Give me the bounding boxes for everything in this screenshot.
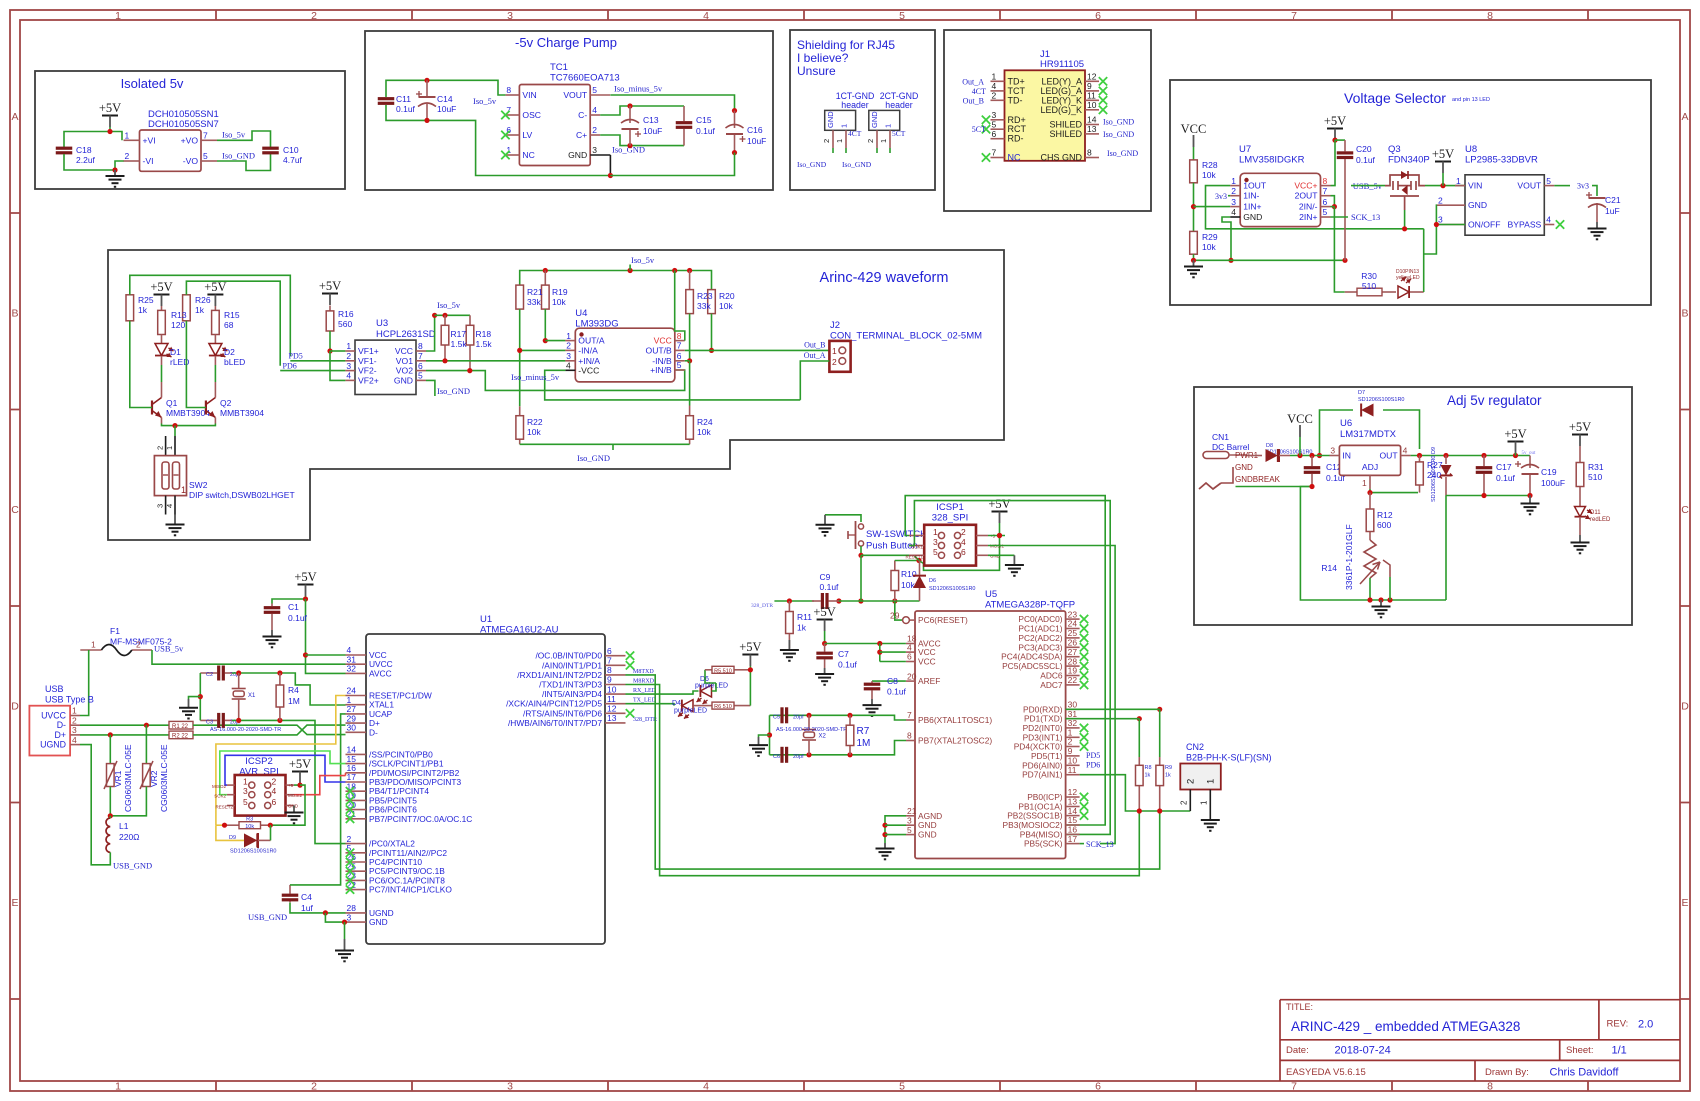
ground (SW2) — [174, 515, 176, 525]
wire +5V to U7 VCC+ pin8 — [1331, 140, 1336, 186]
capacitor C20 — [1335, 139, 1345, 141]
svg-text:4: 4 — [961, 537, 966, 547]
ground (C7) — [824, 668, 826, 674]
U5 pin 23 PC0(ADC0) — [1066, 618, 1080, 620]
no-connect X on OSC LV NC pins — [501, 111, 509, 119]
svg-text:D2: D2 — [224, 347, 235, 357]
svg-text:VCC: VCC — [1181, 122, 1207, 136]
svg-text:+5V: +5V — [813, 605, 835, 619]
svg-text:VO1: VO1 — [396, 356, 413, 366]
U1 pin 24 RESET/PC1/DW — [346, 695, 367, 697]
svg-text:R1 22: R1 22 — [172, 724, 189, 730]
svg-text:R25: R25 — [138, 295, 154, 305]
J1 pin 13 SHILED — [1085, 133, 1099, 135]
resistor R11 1k — [788, 601, 790, 612]
svg-text:C11: C11 — [396, 94, 411, 104]
svg-text:1k: 1k — [797, 623, 807, 633]
svg-text:-5v Charge Pump: -5v Charge Pump — [515, 35, 617, 50]
svg-text:2: 2 — [125, 151, 130, 161]
U5 pin 30 PD0(RXD) — [1066, 708, 1080, 710]
svg-text:8: 8 — [907, 731, 912, 741]
J1 pin 9 LED(G)_A — [1085, 90, 1099, 92]
svg-text:RESET2: RESET2 — [215, 805, 233, 810]
svg-text:VR2: VR2 — [149, 770, 159, 787]
svg-text:A: A — [1681, 111, 1688, 123]
wire ICSP1 pin4 MOSI1 to U5 PB3 via vertical — [988, 546, 1115, 844]
wire C12 bottom rail to bottom gnd rail — [1300, 487, 1368, 601]
svg-text:3v3: 3v3 — [1577, 182, 1589, 191]
svg-text:PB0(ICP): PB0(ICP) — [1027, 792, 1063, 802]
capacitor C7 0.1uf — [824, 644, 826, 652]
svg-text:ADC7: ADC7 — [1040, 680, 1063, 690]
svg-text:bLED: bLED — [224, 357, 245, 367]
svg-text:R4: R4 — [288, 685, 299, 695]
svg-text:SW-1SWITCH: SW-1SWITCH — [866, 529, 927, 540]
U1 pin 22 PC7/INT4/ICP1/CLKO — [346, 889, 367, 891]
wire D2 to Q2 collector — [214, 356, 216, 365]
wire DTR node down to U5 RESET pin29 — [895, 601, 903, 620]
svg-text:1: 1 — [346, 341, 351, 351]
svg-text:3: 3 — [1438, 215, 1443, 225]
wire U4 VCC pin8 elbow to Iso_5v bus — [675, 271, 685, 341]
svg-text:2: 2 — [1438, 195, 1443, 205]
svg-text:1: 1 — [884, 124, 893, 128]
svg-text:I believe?: I believe? — [797, 51, 849, 65]
svg-text:13: 13 — [607, 713, 617, 723]
svg-text:header: header — [885, 100, 912, 110]
wire D10 cathode up to 1OUT line — [1410, 291, 1424, 293]
ICSP2 pins row 1 — [227, 784, 235, 786]
svg-text:B: B — [1681, 308, 1688, 320]
svg-text:4: 4 — [1546, 215, 1551, 225]
svg-text:2: 2 — [72, 715, 77, 725]
varistor VR2 CG0603MLC-05E — [145, 725, 147, 763]
svg-text:+5V: +5V — [204, 280, 226, 294]
svg-text:/HWB/AIN6/T0/INT7/PD7: /HWB/AIN6/T0/INT7/PD7 — [508, 718, 602, 728]
ICSP2 pin6 ground — [293, 806, 295, 809]
svg-text:C5: C5 — [773, 714, 780, 720]
svg-text:C3: C3 — [206, 719, 213, 725]
svg-text:22: 22 — [1068, 675, 1078, 685]
U1 pin 10 /INT5/AIN3/PD4 — [605, 693, 626, 695]
svg-text:Q3: Q3 — [1388, 144, 1401, 155]
svg-text:Iso_GND: Iso_GND — [1107, 149, 1138, 158]
svg-text:220Ω: 220Ω — [119, 832, 140, 842]
svg-text:TX_LED: TX_LED — [633, 698, 656, 704]
svg-text:C-: C- — [578, 110, 587, 120]
U1 pin 27 UCAP — [346, 713, 367, 715]
svg-text:D4: D4 — [672, 700, 681, 707]
svg-text:2: 2 — [566, 341, 571, 351]
svg-text:32: 32 — [347, 664, 357, 674]
svg-text:1: 1 — [840, 124, 849, 128]
svg-text:1IN-: 1IN- — [1243, 191, 1259, 201]
U1 pin 31 UVCC — [346, 663, 367, 665]
svg-text:Unsure: Unsure — [797, 64, 836, 78]
svg-text:4: 4 — [1231, 207, 1236, 217]
U5 pin 1 PD3(INT1) — [1066, 736, 1080, 738]
svg-text:1IN+: 1IN+ — [1243, 202, 1261, 212]
svg-text:+5V: +5V — [988, 497, 1010, 511]
svg-text:0.1uf: 0.1uf — [838, 660, 858, 670]
ground (C19) — [1529, 496, 1531, 504]
svg-text:3: 3 — [507, 10, 513, 22]
J1 pin 14 SHILED — [1085, 124, 1099, 126]
emitter junction wire to SW2 — [162, 424, 216, 426]
svg-text:7: 7 — [1291, 1081, 1297, 1093]
svg-text:2: 2 — [272, 777, 277, 787]
X2 left rail and ground — [769, 715, 771, 755]
wire R26 bottom to Q2 base — [186, 321, 206, 408]
capacitor C1 — [271, 604, 273, 607]
svg-text:R18: R18 — [476, 329, 492, 339]
resistor R20 10k — [708, 290, 716, 314]
svg-text:6: 6 — [907, 652, 912, 662]
svg-text:2.2uf: 2.2uf — [76, 155, 96, 165]
svg-text:GNDBREAK: GNDBREAK — [1235, 475, 1281, 484]
svg-text:5v_out: 5v_out — [1522, 451, 1537, 456]
J1 pin 6 RD- — [991, 138, 1005, 140]
svg-text:C4: C4 — [301, 892, 312, 902]
svg-text:8: 8 — [677, 331, 682, 341]
U1 pin 11 /XCK/AIN4/PCINT12/PD5 — [605, 703, 626, 705]
svg-text:3: 3 — [933, 537, 938, 547]
svg-text:2: 2 — [992, 91, 997, 101]
svg-text:/XCK/AIN4/PCINT12/PD5: /XCK/AIN4/PCINT12/PD5 — [506, 699, 602, 709]
wire VO2 jog to U4 +IN/B — [426, 370, 685, 390]
capacitor C4 1uf — [289, 885, 291, 894]
svg-text:R12: R12 — [1377, 510, 1393, 520]
ground (X1) — [188, 699, 190, 708]
svg-text:TITLE:: TITLE: — [1286, 1002, 1313, 1012]
svg-text:R22: R22 — [527, 417, 543, 427]
svg-text:PB6(XTAL1TOSC1): PB6(XTAL1TOSC1) — [918, 715, 992, 725]
svg-text:1: 1 — [115, 1081, 121, 1093]
section box J1 — [944, 30, 1151, 211]
USB pin 2 D- — [70, 724, 80, 726]
svg-text:5: 5 — [243, 797, 248, 807]
svg-text:5: 5 — [1546, 176, 1551, 186]
wire D6 anode to R5 — [712, 683, 716, 691]
svg-text:5: 5 — [899, 1081, 905, 1093]
svg-text:R21: R21 — [527, 287, 543, 297]
U1 pin 28 UGND — [346, 912, 367, 914]
svg-text:3: 3 — [347, 912, 352, 922]
wire R25 top to PD5 elbow — [130, 275, 290, 356]
svg-text:4CT: 4CT — [848, 129, 862, 138]
svg-text:Iso_5v: Iso_5v — [437, 300, 461, 310]
U5 pin 15 PB3(MOSIOC2) — [1066, 824, 1080, 826]
U1 pin 20 PB6/PCINT6 — [346, 809, 367, 811]
svg-text:VCC: VCC — [918, 657, 936, 667]
svg-text:+5V: +5V — [319, 279, 341, 293]
svg-text:A: A — [11, 111, 18, 123]
svg-text:2: 2 — [1231, 186, 1236, 196]
svg-text:C17: C17 — [1496, 462, 1512, 472]
svg-text:3: 3 — [346, 361, 351, 371]
svg-text:4: 4 — [592, 105, 597, 115]
svg-text:PC7/INT4/ICP1/CLKO: PC7/INT4/ICP1/CLKO — [369, 885, 452, 895]
U5 pin 10 PD6(AIN0) — [1066, 764, 1080, 766]
section box -5v Charge Pump — [365, 31, 773, 190]
svg-text:7: 7 — [203, 131, 208, 141]
svg-text:7: 7 — [677, 341, 682, 351]
svg-text:Shielding for RJ45: Shielding for RJ45 — [797, 38, 895, 52]
svg-text:7: 7 — [1291, 10, 1297, 22]
svg-text:C8: C8 — [887, 676, 898, 686]
diode D9 (ICSP2 reset) — [244, 833, 257, 847]
U5 pin 9 PD5(T1) — [1066, 755, 1080, 757]
svg-text:2: 2 — [961, 527, 966, 537]
svg-text:X2: X2 — [819, 734, 827, 740]
svg-text:1: 1 — [1362, 478, 1367, 488]
svg-text:D6: D6 — [929, 578, 936, 584]
wire U7 pin4 GND to rail — [1222, 217, 1231, 260]
polarized capacitor C21 — [1596, 203, 1598, 222]
svg-text:PD7(AIN1): PD7(AIN1) — [1022, 770, 1063, 780]
U1 pin 2 /PC0/XTAL2 — [346, 843, 367, 845]
U5 pin 3 GND — [906, 824, 915, 826]
svg-text:R20: R20 — [719, 291, 735, 301]
svg-text:1: 1 — [933, 527, 938, 537]
resistor R2 22 — [169, 731, 193, 739]
wire +5V node to U1 VCC pin4 — [306, 654, 346, 656]
crystal X1 AS-16.000-20-2020-SMD-TR — [232, 673, 346, 705]
LED D1 rLED — [161, 335, 163, 344]
svg-text:SCK_13: SCK_13 — [1086, 840, 1114, 849]
svg-text:0.1uf: 0.1uf — [696, 126, 716, 136]
svg-text:1: 1 — [91, 640, 96, 650]
U1 pin 14 /SS/PCINT0/PB0 — [346, 753, 367, 755]
svg-text:7: 7 — [418, 351, 423, 361]
svg-text:1: 1 — [835, 139, 844, 143]
svg-text:VF1-: VF1- — [358, 356, 377, 366]
resistor R1 22 — [169, 721, 193, 729]
svg-text:R31: R31 — [1588, 462, 1604, 472]
U4 pin 4 -VCC — [565, 369, 575, 371]
svg-text:5CT: 5CT — [892, 129, 906, 138]
svg-text:Iso_GND: Iso_GND — [577, 453, 610, 463]
svg-text:R29: R29 — [1202, 232, 1218, 242]
wire pushbutton to RESET net — [860, 546, 862, 555]
svg-text:Voltage Selector: Voltage Selector — [1344, 90, 1446, 106]
wire U7 2OUT to 2IN- junction — [1331, 196, 1335, 207]
svg-text:6: 6 — [607, 646, 612, 656]
U5 pin 16 PB4(MISO) — [1066, 833, 1080, 835]
svg-text:TD+: TD+ — [1008, 76, 1025, 86]
wire top rail C11 C14 to VIN — [386, 80, 505, 97]
U1 no-connect X marks left side — [346, 787, 354, 795]
Iso_5v stub rail for R17 R18 — [435, 314, 470, 316]
crystal cluster X1: cap C2 20pf — [200, 672, 217, 674]
svg-text:10k: 10k — [697, 427, 711, 437]
svg-text:LP2985-33DBVR: LP2985-33DBVR — [1465, 155, 1538, 166]
svg-text:Sheet:: Sheet: — [1566, 1045, 1593, 1056]
net label 3v3 (U7 1IN-) — [1228, 195, 1230, 197]
wire C9 to R10/D6 and pin29 — [839, 600, 920, 602]
bottom ground rail (adj section) — [1369, 599, 1447, 601]
svg-text:Iso_5v: Iso_5v — [631, 255, 655, 265]
svg-text:D9: D9 — [229, 835, 236, 841]
section box Adj 5v regulator — [1194, 387, 1632, 625]
resistor R29 10k — [1190, 231, 1198, 254]
svg-text:+5V: +5V — [1324, 114, 1346, 128]
wire ICSP1 pin2 to +5 — [988, 535, 1005, 537]
svg-text:LV: LV — [522, 130, 532, 140]
svg-text:R9: R9 — [1165, 765, 1172, 771]
U1 pin 13 /HWB/AIN6/T0/INT7/PD7 — [605, 722, 626, 724]
svg-text:RD-: RD- — [1008, 134, 1024, 144]
U1 pin 6 /OC.0B/INT0/PD0 — [605, 655, 626, 657]
section box Shielding for RJ45 — [790, 30, 935, 190]
svg-text:SD1206S100S1R0: SD1206S100S1R0 — [230, 849, 276, 855]
svg-text:8: 8 — [1323, 176, 1328, 186]
svg-text:12: 12 — [1087, 72, 1097, 82]
wire TX_LED from U1 pin11 to LED D4 — [626, 704, 675, 706]
svg-text:4: 4 — [566, 361, 571, 371]
ICSP1 pins row 1 — [909, 535, 924, 537]
svg-text:4: 4 — [1403, 446, 1408, 456]
svg-text:D7: D7 — [1358, 390, 1365, 396]
svg-text:2: 2 — [1180, 800, 1189, 805]
J1 pin 12 LED(Y)_A — [1085, 80, 1099, 82]
svg-text:3: 3 — [72, 725, 77, 735]
svg-text:8: 8 — [1087, 148, 1092, 158]
svg-text:+VO: +VO — [181, 135, 199, 145]
svg-text:Iso_5v: Iso_5v — [473, 96, 497, 106]
resistor R31 510 — [1579, 446, 1581, 463]
net label 3v3 (U8 VOUT) — [1554, 185, 1570, 187]
svg-text:7: 7 — [607, 656, 612, 666]
svg-text:RESET1: RESET1 — [905, 555, 923, 560]
svg-text:1uF: 1uF — [1605, 206, 1620, 216]
svg-text:10k: 10k — [901, 580, 915, 590]
capacitor C18 — [56, 147, 73, 150]
resistor R17 1.5k — [444, 315, 446, 325]
svg-text:6: 6 — [1095, 10, 1101, 22]
svg-text:CON_TERMINAL_BLOCK_02-5MM: CON_TERMINAL_BLOCK_02-5MM — [830, 331, 982, 342]
svg-text:1: 1 — [72, 706, 77, 716]
svg-text:510: 510 — [1362, 281, 1376, 291]
svg-text:Iso_GND: Iso_GND — [797, 160, 827, 169]
svg-text:VO2: VO2 — [396, 366, 413, 376]
resistor R21 33k — [516, 285, 524, 309]
svg-text:HR911105: HR911105 — [1040, 59, 1084, 70]
svg-text:PB7(XTAL2TOSC2): PB7(XTAL2TOSC2) — [918, 736, 992, 746]
wire +5 wrap to reset node — [919, 536, 1000, 571]
svg-text:+5V: +5V — [739, 640, 761, 654]
svg-text:1: 1 — [115, 10, 121, 22]
svg-text:Q2: Q2 — [220, 398, 232, 408]
svg-text:1/1: 1/1 — [1612, 1045, 1627, 1057]
svg-text:4: 4 — [703, 1081, 709, 1093]
svg-text:7: 7 — [992, 148, 997, 158]
J1 pin 10 LED(G)_K — [1085, 109, 1099, 111]
svg-text:R15: R15 — [224, 310, 240, 320]
svg-text:GND: GND — [1468, 200, 1487, 210]
U5 pin 21 AGND — [906, 815, 915, 817]
svg-text:TC7660EOA713: TC7660EOA713 — [550, 73, 620, 84]
svg-text:0.1uf: 0.1uf — [1496, 473, 1516, 483]
varistor VR1 CG0603MLC-05E — [109, 735, 111, 764]
U5 pin 2 PD4(XCKT0) — [1066, 746, 1080, 748]
svg-text:120: 120 — [171, 320, 185, 330]
svg-text:R16: R16 — [338, 309, 354, 319]
svg-text:100uF: 100uF — [1541, 478, 1565, 488]
svg-text:C21: C21 — [1605, 195, 1621, 205]
svg-text:3: 3 — [566, 351, 571, 361]
wire OUT to 5v rail — [1411, 455, 1530, 457]
svg-text:MMBT3904: MMBT3904 — [220, 408, 264, 418]
svg-text:C16: C16 — [747, 125, 763, 135]
ground (adj section) — [1380, 600, 1382, 606]
wire D9 bottom to lower rail and down to gnd rail — [1445, 496, 1447, 601]
svg-text:29: 29 — [890, 610, 900, 620]
SW2 bottom pins — [165, 496, 167, 515]
wire yellow RESET2 to U1 RESET — [216, 696, 346, 806]
resistor R6 510 — [704, 705, 712, 707]
ground (D11) — [1579, 535, 1581, 542]
svg-text:9: 9 — [607, 675, 612, 685]
J1 pin 4 TCT — [991, 90, 1005, 92]
wire Q3 to +5V node to U8 VIN — [1425, 185, 1465, 187]
svg-text:U8: U8 — [1465, 144, 1477, 155]
wire R19 to U4 OUT/A — [544, 309, 546, 341]
svg-text:C7: C7 — [838, 649, 849, 659]
svg-text:PD6: PD6 — [283, 362, 297, 371]
svg-text:3361P-1-201GLF: 3361P-1-201GLF — [1344, 524, 1354, 590]
svg-text:20pf: 20pf — [793, 714, 804, 720]
wire blue MISO2 to U1 PB3 — [225, 755, 346, 785]
wire UCAP to C4 — [290, 714, 346, 885]
svg-text:/INT5/AIN3/PD4: /INT5/AIN3/PD4 — [542, 689, 602, 699]
svg-text:C19: C19 — [1541, 467, 1557, 477]
wire R14 wiper to rail — [1389, 577, 1391, 600]
svg-text:ON/OFF: ON/OFF — [1468, 220, 1500, 230]
Q3 gate wire down — [1404, 210, 1406, 229]
wire D4 anode to R6 — [693, 705, 704, 707]
svg-text:6: 6 — [272, 797, 277, 807]
svg-text:C10: C10 — [283, 145, 299, 155]
C14 bottom lead — [426, 104, 428, 120]
svg-text:Date:: Date: — [1286, 1045, 1309, 1056]
svg-text:4: 4 — [272, 786, 277, 796]
svg-text:GND: GND — [918, 830, 937, 840]
svg-text:2IN/-: 2IN/- — [1299, 202, 1318, 212]
svg-text:-IN/A: -IN/A — [578, 345, 598, 355]
resistor R7 1M — [849, 715, 851, 725]
svg-text:TC1: TC1 — [550, 62, 568, 73]
svg-text:328_SPI: 328_SPI — [932, 513, 968, 524]
lower rail C17 C19 gnd — [1446, 495, 1530, 497]
wire ICSP1 pin3 SCK1 bus to U5 PB5 — [909, 501, 1110, 835]
U1 pin 17 PB3/PDO/MISO/PCINT3 — [346, 781, 367, 783]
svg-text:C18: C18 — [76, 145, 92, 155]
svg-text:4.7uf: 4.7uf — [283, 155, 303, 165]
svg-text:Iso_minus_5v: Iso_minus_5v — [614, 84, 663, 94]
svg-text:1k: 1k — [138, 305, 148, 315]
svg-text:SD1206S100S1R0 D9: SD1206S100S1R0 D9 — [1431, 447, 1437, 502]
svg-text:/TXD1/INT3/PD3: /TXD1/INT3/PD3 — [539, 680, 602, 690]
svg-text:USB: USB — [45, 684, 64, 694]
U1 pin 1 XTAL1 — [346, 704, 367, 706]
svg-text:3: 3 — [507, 1081, 513, 1093]
wire bottom rail C11 C14 down to Iso_GND rail — [386, 105, 610, 176]
svg-text:M8RXD: M8RXD — [633, 679, 655, 685]
svg-text:U5: U5 — [985, 589, 997, 600]
U5 pin 20 AREF — [906, 680, 915, 682]
U1 pin 32 AVCC — [346, 672, 367, 674]
